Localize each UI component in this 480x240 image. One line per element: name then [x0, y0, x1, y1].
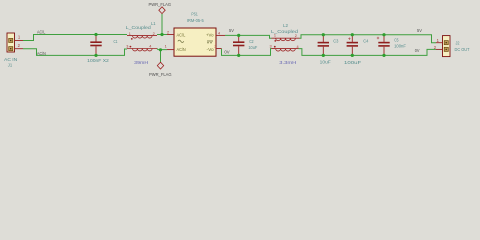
node junction top flag	[160, 33, 163, 36]
C5 plus mark	[377, 37, 379, 39]
L2 top polarity dot	[274, 40, 276, 42]
svg-text:4: 4	[297, 45, 299, 49]
svg-text:2: 2	[153, 32, 155, 36]
svg-text:C5: C5	[394, 38, 399, 43]
svg-text:10uF: 10uF	[248, 45, 257, 50]
node junction C5 bottom	[382, 54, 385, 57]
svg-text:AC IN: AC IN	[4, 57, 17, 62]
connector J2	[434, 36, 470, 57]
PS1 pin 1 AC/N	[167, 49, 174, 51]
AC squiggle	[178, 40, 184, 42]
svg-text:39mH: 39mH	[134, 60, 148, 65]
svg-text:4: 4	[218, 32, 220, 36]
svg-text:AC/N: AC/N	[37, 51, 46, 56]
power flag top	[149, 2, 172, 34]
svg-text:3: 3	[214, 45, 216, 49]
node junction C5 top	[382, 33, 385, 36]
wire AC/L from J1 to top rail	[23, 35, 127, 41]
svg-text:PS1: PS1	[191, 12, 198, 17]
svg-text:AC/N: AC/N	[177, 47, 186, 52]
inductor L1 (common mode choke)	[126, 21, 157, 65]
svg-text:2: 2	[167, 30, 169, 34]
L1 bottom polarity dot	[130, 46, 132, 48]
svg-text:PWR_FLAG: PWR_FLAG	[149, 2, 172, 7]
wire 0V from PS1 to bottom rail	[222, 49, 272, 56]
L1 bottom winding	[127, 49, 157, 51]
svg-text:5V: 5V	[417, 28, 423, 34]
svg-text:C3: C3	[333, 39, 339, 44]
capacitor C3	[318, 35, 339, 65]
node junction C4 top	[351, 33, 354, 36]
AC-DC module PS1 IRM-05-5	[165, 12, 225, 57]
svg-text:J1: J1	[8, 62, 13, 67]
svg-text:AC/L: AC/L	[37, 30, 46, 35]
svg-text:3: 3	[126, 44, 128, 48]
L1 top winding	[127, 36, 157, 38]
wire AC/N from J1 to bottom rail	[23, 49, 127, 56]
wire 5V from PS1 to L2	[225, 35, 272, 38]
svg-text:C2: C2	[249, 39, 254, 44]
C4 plus mark	[348, 38, 350, 40]
capacitor C4	[344, 35, 369, 65]
svg-text:4: 4	[149, 44, 151, 48]
svg-text:1: 1	[274, 34, 276, 38]
svg-text:100uF: 100uF	[344, 60, 361, 65]
PS1 pin 3 -Vo	[216, 48, 222, 50]
node junction C4 bottom	[351, 54, 354, 57]
svg-text:L2: L2	[283, 23, 288, 28]
node junction C1 bottom	[94, 54, 97, 57]
node junction C1 top	[94, 33, 97, 36]
svg-text:2: 2	[295, 34, 297, 38]
connector J1	[4, 33, 23, 67]
svg-text:10uF: 10uF	[320, 60, 331, 65]
node junction C3 bottom	[322, 54, 325, 57]
DC dashes	[207, 41, 213, 43]
L2 bottom winding	[272, 49, 299, 51]
svg-text:3.3mH: 3.3mH	[279, 60, 296, 65]
svg-text:IRM-05-5: IRM-05-5	[187, 18, 204, 23]
wire 5V rail after L2 to J2	[300, 35, 437, 43]
svg-text:C1: C1	[114, 39, 118, 44]
svg-text:J2: J2	[456, 40, 460, 45]
wire top rail L1 to PS1	[157, 34, 167, 36]
node junction C3 top	[322, 33, 325, 36]
svg-text:-Vo: -Vo	[207, 47, 215, 52]
capacitor C1	[87, 35, 118, 63]
L2 bottom polarity dot	[274, 46, 276, 48]
capacitor C2	[233, 35, 257, 55]
svg-text:3: 3	[270, 45, 272, 49]
PS1 pin 2 AC/L	[167, 34, 174, 36]
wire 0V rail after L2 to J2	[299, 49, 437, 56]
svg-text:100nF X2: 100nF X2	[87, 58, 109, 63]
node junction bottom flag	[159, 48, 162, 51]
node junction C2 bottom	[237, 54, 240, 57]
svg-text:1: 1	[129, 32, 131, 36]
capacitor C5	[377, 35, 406, 56]
svg-text:100nF: 100nF	[394, 43, 406, 48]
node junction C2 top	[237, 34, 240, 37]
svg-text:5V: 5V	[229, 28, 235, 34]
svg-text:+Vo: +Vo	[206, 32, 214, 37]
PS1 pin 4 +Vo	[216, 34, 225, 36]
power flag bottom	[149, 50, 172, 77]
svg-text:L1: L1	[151, 21, 156, 26]
L2 top winding	[272, 38, 300, 40]
svg-text:1: 1	[165, 45, 167, 49]
svg-text:C4: C4	[363, 39, 368, 44]
svg-text:AC/L: AC/L	[177, 32, 186, 37]
svg-text:0V: 0V	[415, 48, 420, 54]
svg-text:PWR_FLAG: PWR_FLAG	[149, 72, 172, 77]
inductor L2 (common mode choke)	[270, 23, 300, 65]
L1 top polarity dot	[131, 38, 133, 40]
svg-text:DC OUT: DC OUT	[455, 47, 470, 52]
svg-text:L_Coupled: L_Coupled	[126, 25, 151, 30]
wire bottom L1 to PS1	[157, 49, 167, 50]
svg-text:0V: 0V	[224, 50, 230, 56]
